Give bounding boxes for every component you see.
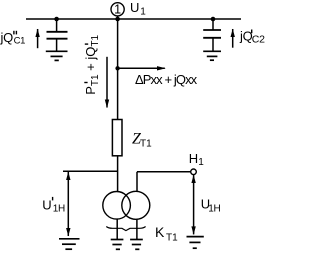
svg-text:1: 1 xyxy=(140,6,146,17)
ground U'1H xyxy=(59,239,80,249)
arrow U1H double xyxy=(191,175,195,235)
capacitor C2 xyxy=(203,19,221,51)
transformer KT1 primary winding xyxy=(103,192,131,220)
arrow dPxx right xyxy=(118,66,166,70)
wire: right feed vertical xyxy=(136,172,138,192)
arrow jQ''C1 up xyxy=(35,29,39,49)
svg-text:C1: C1 xyxy=(14,36,26,47)
svg-text:1H: 1H xyxy=(208,204,220,215)
wire: secondary bottom stub xyxy=(136,219,138,239)
arrow jQ'C2 up xyxy=(231,29,235,48)
svg-text:1H: 1H xyxy=(53,204,65,215)
wire: left horizontal to U'1H xyxy=(63,170,118,172)
svg-text:jQ: jQ xyxy=(239,29,253,44)
arrow U'1H double xyxy=(66,172,70,237)
svg-text:C2: C2 xyxy=(252,34,265,46)
ground primary xyxy=(111,240,124,250)
junction dot C1 xyxy=(54,17,59,22)
ground secondary xyxy=(130,240,143,250)
svg-text:ΔPxx + jQxx: ΔPxx + jQxx xyxy=(135,72,198,87)
svg-text:U: U xyxy=(42,198,51,213)
wire: main vertical upper xyxy=(117,16,119,120)
node 1 circle xyxy=(111,3,124,16)
ground C1 xyxy=(46,51,68,60)
svg-text:1: 1 xyxy=(198,157,204,168)
brace winding group xyxy=(106,227,145,231)
label P'T1 + jQ'T1 rotated xyxy=(83,35,101,95)
svg-text:U: U xyxy=(130,0,139,15)
capacitor C1 xyxy=(47,19,68,51)
ground H1 xyxy=(187,237,204,249)
svg-text:T1: T1 xyxy=(140,138,152,149)
junction dot DP branch xyxy=(115,66,119,70)
svg-text:1: 1 xyxy=(114,3,121,17)
ground C2 xyxy=(203,51,221,60)
prime of Q'T1 xyxy=(85,43,88,45)
wire: top bus U1 xyxy=(26,18,241,20)
svg-text:K: K xyxy=(155,224,165,240)
node H1 circle xyxy=(191,169,197,175)
wire: right horizontal to H1 xyxy=(137,171,191,173)
junction dot C2 xyxy=(211,17,216,22)
svg-text:T1: T1 xyxy=(166,232,178,243)
wire: primary bottom stub xyxy=(116,219,118,239)
prime of P'T1 xyxy=(84,82,87,84)
svg-text:H: H xyxy=(189,151,198,166)
resistor ZT1 xyxy=(112,120,122,156)
wire: main vertical lower xyxy=(117,156,119,192)
svg-text:jQ: jQ xyxy=(0,30,13,45)
transformer KT1 secondary winding xyxy=(122,191,150,219)
junction dot at node 1 xyxy=(115,17,120,22)
arrow P'T1 down xyxy=(105,57,109,108)
